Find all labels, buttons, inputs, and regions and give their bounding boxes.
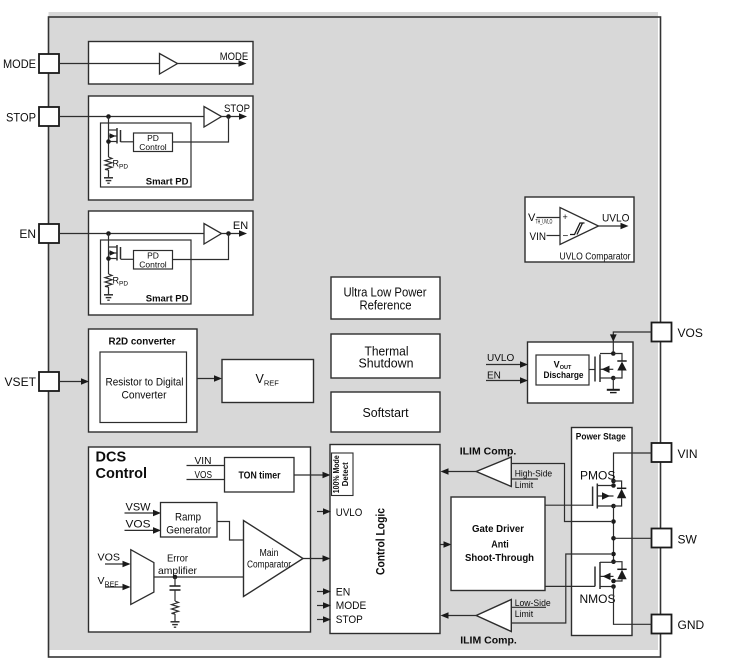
svg-text:STOP: STOP — [6, 111, 36, 125]
wire EN into discharge — [486, 380, 522, 382]
svg-text:VSW: VSW — [126, 502, 152, 514]
svg-text:VSET: VSET — [5, 375, 37, 389]
svg-text:Shutdown: Shutdown — [359, 357, 414, 371]
svg-text:VIN: VIN — [530, 231, 547, 243]
svg-text:R2D converter: R2D converter — [109, 336, 176, 348]
wire PD Control to output node (EN) — [173, 234, 229, 260]
svg-text:Resistor to Digital: Resistor to Digital — [106, 377, 184, 389]
diode discharge body — [613, 354, 626, 379]
wire ramp generator to main comparator — [217, 522, 244, 541]
resistor R-comp — [172, 590, 179, 622]
wire NMOS source to GND pin — [614, 587, 652, 625]
node compensation junction — [173, 575, 178, 580]
wire TON timer to control logic — [294, 474, 324, 476]
wire VREF to error amplifier — [105, 586, 124, 588]
STOP block box — [89, 96, 254, 200]
svg-text:DCS: DCS — [96, 450, 127, 466]
wire discharge to ground — [612, 378, 614, 390]
svg-text:High-Side: High-Side — [515, 468, 553, 479]
chip fill — [49, 12, 659, 650]
pin SW — [652, 529, 698, 548]
node discharge source — [611, 376, 616, 381]
node NMOS diode anode — [611, 579, 616, 584]
svg-text:Shoot-Through: Shoot-Through — [465, 552, 534, 564]
wire R2D to VREF — [197, 378, 216, 380]
node EN output junction — [226, 231, 231, 236]
wire high-side sense to PMOS drain — [511, 464, 611, 522]
svg-text:Generator: Generator — [166, 525, 211, 537]
svg-text:Anti: Anti — [491, 539, 509, 551]
wire UVLO output — [599, 225, 623, 227]
Smart PD inner box (EN) — [101, 240, 192, 304]
wire SW node to pin — [614, 537, 652, 539]
wire low-side comp output to control logic — [446, 615, 476, 617]
chip outline — [49, 17, 661, 657]
wire high-side comp output to control logic — [446, 471, 476, 473]
wire STOP output — [222, 116, 241, 118]
wire error amp to main comparator — [154, 576, 244, 578]
wire gate driver to PMOS gate — [545, 504, 593, 506]
svg-text:VOS: VOS — [678, 326, 703, 340]
wire VOS to ramp generator — [125, 529, 155, 531]
svg-text:Gate Driver: Gate Driver — [472, 523, 524, 535]
op-amp UVLO comparator — [560, 208, 599, 245]
wire STOP stub arrow — [317, 619, 325, 621]
wire control logic to gate driver — [440, 544, 446, 546]
pin VIN — [652, 443, 698, 462]
wire VTH to comparator + — [537, 217, 561, 219]
node PMOS source — [611, 479, 616, 484]
svg-text:100% Mode: 100% Mode — [332, 455, 341, 493]
svg-text:Limit: Limit — [515, 480, 534, 491]
PD Control box (EN) — [134, 251, 173, 270]
svg-text:VOS: VOS — [126, 519, 151, 531]
svg-text:VOS: VOS — [98, 552, 121, 564]
node discharge drain — [611, 351, 616, 356]
svg-text:amplifier: amplifier — [158, 565, 197, 577]
wire VOS to error amplifier — [105, 563, 124, 565]
MODE buffer box — [89, 42, 254, 85]
svg-text:Converter: Converter — [122, 390, 167, 402]
UVLO Comparator box — [525, 197, 634, 262]
ground (STOP smart PD) — [104, 178, 113, 183]
svg-text:Power Stage: Power Stage — [576, 432, 626, 443]
Power Stage box — [572, 428, 633, 636]
wire rail PMOS to NMOS — [613, 506, 615, 562]
wire main comparator to control logic — [303, 558, 324, 560]
wire MODE output — [178, 63, 241, 65]
svg-text:STOP: STOP — [224, 103, 250, 115]
wire UVLO stub arrow — [317, 511, 325, 513]
transistor PD switch (STOP) — [106, 128, 120, 144]
svg-text:NMOS: NMOS — [580, 592, 616, 606]
svg-text:UVLO: UVLO — [487, 353, 514, 364]
svg-text:Ultra Low Power: Ultra Low Power — [344, 286, 427, 300]
transistor discharge FET — [589, 354, 613, 383]
svg-text:Discharge: Discharge — [544, 370, 584, 381]
svg-text:Control: Control — [96, 466, 148, 482]
100% Mode Detect box — [332, 453, 354, 496]
op-amp high-side ILIM comparator — [476, 457, 511, 487]
wire STOP pin to buffer — [59, 116, 204, 118]
svg-text:VIN: VIN — [678, 447, 698, 461]
svg-text:EN: EN — [233, 220, 248, 232]
ground (compensation) — [171, 622, 180, 627]
Vout Discharge outer box — [528, 342, 634, 403]
pin VSET — [5, 372, 60, 391]
svg-text:Control Logic: Control Logic — [376, 507, 388, 575]
svg-text:Limit: Limit — [515, 609, 534, 620]
svg-text:Smart PD: Smart PD — [146, 294, 189, 305]
resistor RPD (EN) — [105, 274, 128, 288]
svg-text:Control: Control — [139, 142, 167, 152]
wire VOS to TON timer — [187, 479, 225, 481]
VREF box — [222, 360, 314, 403]
PD Control box (STOP) — [134, 133, 173, 152]
Ultra Low Power Reference box — [331, 277, 440, 319]
Gate Driver box — [451, 497, 545, 591]
R2D converter box — [89, 329, 198, 432]
svg-text:SW: SW — [678, 533, 698, 547]
wire gate driver to NMOS gate — [545, 585, 595, 587]
wire PD Control to output node (STOP) — [173, 117, 229, 143]
svg-text:GND: GND — [678, 618, 705, 632]
wire VIN pin to rail — [614, 453, 652, 481]
op-amp main comparator — [244, 521, 304, 597]
node high-side sense — [611, 519, 616, 524]
wire VIN to comparator - — [547, 235, 561, 237]
Control Logic box — [330, 445, 440, 634]
wire low-side limit stub — [511, 606, 546, 608]
buffer U-STOP — [204, 107, 222, 128]
svg-text:Detect: Detect — [341, 462, 350, 486]
Smart PD inner box (STOP) — [101, 123, 192, 187]
svg-text:UVLO Comparator: UVLO Comparator — [560, 251, 632, 262]
wire MODE stub arrow — [317, 605, 325, 607]
wire resistor to ground (EN) — [108, 287, 110, 295]
pin MODE — [3, 54, 59, 73]
svg-text:Low-Side: Low-Side — [515, 598, 551, 609]
resistor RPD (STOP) — [105, 157, 128, 171]
error amplifier — [131, 550, 154, 605]
svg-text:Reference: Reference — [360, 299, 412, 313]
pin EN — [19, 224, 59, 243]
Softstart box — [331, 392, 440, 432]
node NMOS drain — [611, 559, 616, 564]
Vout Discharge inner box — [536, 355, 589, 385]
svg-text:Comparator: Comparator — [247, 559, 292, 570]
node STOP input junction — [106, 114, 111, 119]
svg-text:Main: Main — [260, 548, 279, 559]
svg-text:MODE: MODE — [336, 600, 367, 612]
node NMOS source — [611, 584, 616, 589]
diode NMOS body — [614, 562, 627, 581]
svg-text:Ramp: Ramp — [175, 511, 201, 523]
wire EN pin to buffer — [59, 233, 204, 235]
wire gate to PD Control (EN) — [121, 258, 134, 260]
svg-text:ILIM Comp.: ILIM Comp. — [460, 446, 517, 458]
wire high-side limit stub — [511, 478, 538, 480]
pin GND — [652, 615, 705, 634]
svg-text:EN: EN — [487, 371, 501, 382]
EN block box — [89, 211, 254, 315]
op-amp low-side ILIM comparator — [476, 600, 511, 632]
ground (discharge) — [607, 390, 620, 393]
wire VSW to ramp generator — [125, 512, 155, 514]
wire VIN to TON timer — [187, 465, 225, 467]
svg-text:EN: EN — [336, 587, 351, 599]
wire vertical pulldown (EN) — [108, 234, 110, 275]
node low-side sense — [611, 552, 616, 557]
wire VSET to R2D — [59, 381, 83, 383]
transistor PMOS — [593, 484, 614, 509]
wire UVLO into discharge — [486, 364, 522, 366]
node EN input junction — [106, 231, 111, 236]
svg-text:Error: Error — [167, 553, 188, 565]
svg-text:UVLO: UVLO — [602, 213, 630, 225]
node PMOS drain — [611, 504, 616, 509]
svg-text:Smart PD: Smart PD — [146, 177, 189, 188]
node STOP output junction — [226, 114, 231, 119]
svg-text:Softstart: Softstart — [363, 406, 410, 420]
svg-text:STOP: STOP — [336, 614, 363, 626]
wire gate to PD Control (STOP) — [121, 141, 134, 143]
DCS Control box — [89, 447, 311, 632]
pin STOP — [6, 107, 59, 126]
TON timer box — [225, 458, 295, 493]
wire vertical pulldown (STOP) — [108, 117, 110, 158]
svg-text:PMOS: PMOS — [580, 469, 615, 483]
svg-text:+: + — [563, 212, 568, 222]
svg-text:MODE: MODE — [220, 51, 249, 63]
svg-text:ILIM Comp.: ILIM Comp. — [460, 635, 517, 647]
wire EN output — [222, 233, 241, 235]
pin VOS — [652, 323, 703, 342]
svg-text:TON timer: TON timer — [239, 470, 281, 482]
svg-text:MODE: MODE — [3, 57, 36, 71]
node SW — [611, 536, 616, 541]
diode PMOS body — [614, 481, 627, 506]
buffer U-MODE — [160, 54, 178, 75]
Thermal Shutdown box — [331, 334, 440, 378]
svg-text:EN: EN — [19, 227, 36, 241]
transistor NMOS — [595, 562, 614, 589]
svg-text:Control: Control — [139, 260, 167, 270]
transistor PD switch (EN) — [106, 245, 120, 261]
wire MODE pin to buffer — [59, 63, 160, 65]
wire resistor to ground (STOP) — [108, 170, 110, 178]
buffer U-EN — [204, 224, 222, 245]
wire low-side sense to NMOS drain — [511, 554, 611, 623]
ground (EN smart PD) — [104, 295, 113, 300]
wire EN stub arrow — [317, 591, 325, 593]
wire VOS pin to discharge — [613, 332, 651, 352]
Ramp Generator box — [161, 503, 218, 538]
svg-text:−: − — [563, 231, 569, 242]
svg-text:UVLO: UVLO — [336, 507, 363, 519]
capacitor C-comp — [170, 577, 181, 590]
